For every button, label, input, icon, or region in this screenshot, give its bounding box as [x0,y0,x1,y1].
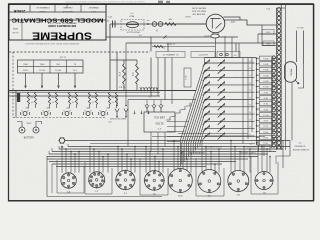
bus wire y96 [9,95,160,97]
tube socket X6 (6-B) [198,170,221,198]
svg-text:5-1: 5-1 [112,102,115,104]
tap label T-35C [262,30,274,35]
wire tap y25 to winding [262,24,277,26]
wire from jack long y140.5 [65,140,290,142]
svg-text:R 100: R 100 [264,143,269,145]
winding right rail [280,4,282,150]
svg-text:4S-B: 4S-B [178,196,183,198]
node a-a junction [147,20,151,25]
svg-text:-A2C: -A2C [231,21,236,24]
svg-text:7-4: 7-4 [249,112,251,114]
svg-text:7-6: 7-6 [249,97,251,99]
note text block top right [185,8,206,18]
svg-text:R 10M: R 10M [263,81,269,83]
resistor bank row (5 vertical resistors with labels) [26,93,118,109]
svg-text:R 500: R 500 [264,132,269,134]
svg-text:C-100 5HT: C-100 5HT [198,55,209,57]
svg-text:7-9: 7-9 [249,76,251,78]
selector box bottom drops [151,132,165,154]
svg-text:INSULATOR: INSULATOR [295,145,306,148]
wire vertical x236 drop [235,43,237,52]
label 4-2 multiplier [246,144,257,149]
label regeneration [181,152,205,155]
svg-text:R 7.5M: R 7.5M [263,87,269,89]
title block text MODEL 589 SCHEMATIC (rotated 180) [11,17,103,23]
jack panel left edge vertical x16 [15,91,17,118]
vertical wire x117 [116,52,118,91]
svg-text:1-5: 1-5 [31,102,34,104]
dashed wire y52 left [9,51,150,53]
svg-text:3-3: 3-3 [72,102,75,104]
tube socket X1 (6-A) [61,172,76,193]
extra link dots right of Y forks [134,111,150,115]
jack J-5 with wire [58,137,66,149]
svg-text:4-100: 4-100 [186,75,188,80]
svg-text:R.L.T.: R.L.T. [90,10,96,12]
svg-text:INSTRUMENTS CORP.: INSTRUMENTS CORP. [48,24,77,28]
svg-text:1/2 TRIMMER 7-6: 1/2 TRIMMER 7-6 [162,55,179,57]
tap step wires [258,25,262,46]
wire y99.7 above selector [128,99,196,101]
svg-text:6-1-36: 6-1-36 [12,31,19,33]
junction ticks on bus [140,87,158,91]
svg-text:TY VM: TY VM [297,28,304,30]
wire tap y34 to winding [258,33,277,35]
staircase horizontal stubs [167,122,189,142]
pin jack row [21,110,108,115]
left value table box [18,60,84,73]
switch top rail y57.5 [205,57,257,59]
svg-text:2194-B: 2194-B [39,10,46,12]
vertical dashed wire x13 [12,52,14,118]
switch staircase verticals and diagonals [181,63,205,167]
svg-text:5-8: 5-8 [109,122,112,124]
switch contact rows with arrows [203,60,255,140]
wire y136.5 mid [152,136,265,138]
vertical wire x172 lower [171,58,173,105]
svg-text:CHECKED: CHECKED [63,6,73,8]
svg-text:COM.: COM. [129,16,135,18]
svg-text:R 250: R 250 [264,138,269,140]
verticals from top wires into switch [205,24,240,58]
svg-text:R 3M: R 3M [264,104,269,106]
wire tube plate to right [225,20,263,25]
svg-text:4-2: 4-2 [250,144,253,146]
tube V1 cathode diagonal [216,23,222,29]
svg-text:TEST: TEST [26,123,32,125]
chassis line under sockets [47,196,162,198]
battery test terminals [17,122,42,140]
svg-text:R-1-B: R-1-B [39,70,45,72]
svg-text:R 1M: R 1M [264,121,269,123]
dashed battery line y117.5 [13,117,105,119]
tube socket X3 (6-7) [115,170,136,195]
svg-text:R 50M: R 50M [263,58,269,60]
ballast lamp L-1 in dashed box [121,13,144,30]
wire main top horizontal [110,23,206,25]
vertical wire x151 lower [150,58,152,97]
svg-text:COPYRIGHT SUPREME INSTR. CORP.: COPYRIGHT SUPREME INSTR. CORP. 1936 ALL … [25,42,80,45]
resistor R-16 vertical [120,60,126,91]
label box with contacts [217,52,240,58]
ladder right rail x271.5 [271,58,273,149]
svg-text:7-1: 7-1 [249,134,251,136]
wire tap y45.5 to winding [262,45,277,47]
harness left nest verticals [47,144,68,197]
label right multiplier block [293,143,310,152]
svg-text:NOTE: SHOWN: NOTE: SHOWN [192,8,206,10]
svg-text:R 1.5M: R 1.5M [263,115,269,117]
meter connection wires [292,62,304,141]
selector Y fork jacks on top [145,100,163,112]
wire y143.5 mid [90,143,255,145]
wire vertical x151 drop [150,37,152,52]
svg-text:approved: approved [62,10,73,13]
svg-text:2-3: 2-3 [299,143,302,145]
tube socket X7 (2-B) [228,171,249,197]
socket group boxes [57,156,278,196]
svg-text:EXTRA CONTACTS: EXTRA CONTACTS [293,149,310,152]
svg-text:C-11: C-11 [108,17,113,19]
tube V1 grid [211,18,213,29]
svg-text:L-A: L-A [222,35,226,38]
tube socket X2 (L-5) [88,172,105,194]
pilot lamp pair [126,22,162,38]
svg-text:ALL JACK SW.: ALL JACK SW. [193,13,206,16]
svg-text:7-3: 7-3 [249,119,251,121]
selector box TOY BAT VOLTS [144,112,175,132]
label moveable knob [195,146,222,150]
svg-text:7-8: 7-8 [249,83,251,85]
svg-text:VOLTS: VOLTS [155,122,164,126]
wire vertical x168 drop [163,43,168,52]
svg-text:4-2: 4-2 [92,102,95,104]
svg-text:BATTERY: BATTERY [24,137,35,140]
title block outline [9,4,106,40]
selector steps right of box [166,103,190,121]
vertical wire x165 lower [164,58,166,100]
power winding strip (loops) [277,8,281,149]
svg-text:R 4M: R 4M [264,98,269,100]
svg-text:R-7 75: R-7 75 [60,57,67,59]
svg-text:2-4: 2-4 [52,102,55,104]
harness horizontal wires [47,147,290,167]
svg-text:MODEL 589-SCHEMATIC: MODEL 589-SCHEMATIC [11,17,103,23]
svg-text:R 750: R 750 [264,126,269,128]
svg-text:(-): (-) [156,30,158,32]
svg-text:TOY BAT: TOY BAT [154,116,165,120]
svg-text:DATE: DATE [12,27,18,30]
svg-text:R 20M: R 20M [263,75,269,77]
meter M1 capsule [285,62,297,82]
svg-text:(TOP): (TOP) [185,17,190,19]
right side verticals to socket 8 [276,141,290,169]
svg-text:FOR TOP VIEW: FOR TOP VIEW [192,11,206,13]
wire long horizontal y37 [107,36,239,38]
tube socket X4 (5-0) [144,170,165,196]
svg-text:5-B 75: 5-B 75 [119,87,126,89]
resistor ladder rails [257,8,277,150]
bus wire y92.2 (double line) [9,91,160,93]
svg-text:7-45: 7-45 [266,9,270,11]
svg-text:R 2M: R 2M [264,109,269,111]
wire y133.5 mid [178,133,248,135]
wire vertical x126 upper [125,43,127,96]
secondary winding column lower right [272,56,275,147]
resistor R-3 horizontal [165,18,176,25]
tube socket X8 (7-B) [254,171,274,195]
title block text SUPREME (rotated 180) [12,22,92,41]
winding outer rail x285 [285,4,287,150]
svg-text:R 5M: R 5M [264,92,269,94]
svg-text:7-11: 7-11 [248,61,251,63]
resistor ladder rows (labeled boxes) [256,56,277,145]
Y jack forks [115,96,128,118]
svg-text:R-1-A: R-1-A [55,69,61,72]
svg-text:100 MA: 100 MA [290,68,293,76]
tick mark on y37 wire [164,36,167,39]
wire top to tube [176,23,206,25]
switch wafer label box [184,68,191,87]
svg-text:7-7: 7-7 [249,90,251,92]
svg-text:PAGE 2194-B SUPREME INSTRUME: PAGE 2194-B SUPREME INSTRUMENTS CORP. GR… [65,1,145,4]
outer border frame [9,4,314,201]
svg-text:2194-B: 2194-B [13,9,25,13]
vertical wire x158 lower [157,58,159,97]
dark label blob on panel left [17,93,20,102]
wire y46.5 segment [152,46,215,48]
svg-text:7-10: 7-10 [248,68,251,70]
label box 1/2 TRIMMER [156,52,185,58]
tube V1 pins [213,33,218,38]
vertical wire x128 to harness [127,100,129,147]
svg-text:R 30M: R 30M [263,70,269,72]
svg-text:4-4: 4-4 [163,48,166,50]
resistor R-41 vertical [133,60,139,91]
table drop wires with arrows [25,73,77,88]
tube socket X5 (4S-B) [168,168,192,198]
svg-text:1-3 JTD JPDM: 1-3 JTD JPDM [126,32,139,34]
switch vertical rails [205,58,253,144]
bus wire y90.5 [9,90,196,92]
capacitor C-11 [105,17,115,28]
table cell texts [23,64,77,72]
scan grain overlay [8,4,314,201]
meter arrow [296,81,300,85]
svg-text:DRAWN BY: DRAWN BY [88,6,99,9]
title block drawing number cells (rotated 180) [13,6,98,13]
wire long horizontal y43 [126,42,277,44]
winding top connection [266,8,285,12]
svg-text:MOVEABLE KNOB: MOVEABLE KNOB [204,146,222,149]
ladder bottom tails [257,145,271,156]
label box C-100 [191,52,215,58]
resistor small on y46.5 [154,45,163,47]
harness to socket drop wires [61,140,271,173]
tap label MRL [263,41,274,46]
tube V1 envelope [206,14,225,33]
svg-text:2-8: 2-8 [234,55,237,57]
svg-text:JUNCTION LINKS: JUNCTION LINKS [110,119,127,121]
wire y60 connecting resistor tops [110,59,137,61]
top right vertical pair to meter TY VM [297,28,304,64]
svg-text:INSULATOR: INSULATOR [246,146,257,149]
wire tube right upper [224,17,241,20]
svg-text:7-2: 7-2 [249,127,251,129]
coil L-A under tube [211,34,226,38]
wire vertical left drop from C-11 [109,24,111,91]
svg-text:SUPREME: SUPREME [32,30,92,41]
svg-text:DRAWING NO.: DRAWING NO. [35,6,49,9]
svg-text:R 40M: R 40M [263,64,269,66]
svg-text:7-5: 7-5 [249,105,251,107]
tube V1 plate [211,18,221,20]
junction links label [109,119,127,124]
